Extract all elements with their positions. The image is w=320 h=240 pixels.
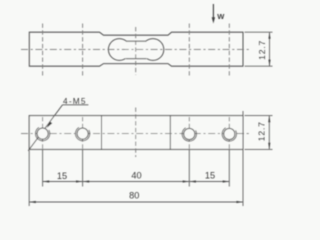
mid vertical centerline (side view)	[135, 27, 137, 75]
load arrow W head	[212, 17, 215, 23]
dumbbell neck mask	[125, 41, 147, 58]
step edge line left (plan)	[101, 116, 103, 150]
hole 2 centerline	[82, 117, 84, 150]
svg-text:12.7: 12.7	[257, 40, 267, 60]
hole 2 (M5 tapped): outer thread arc	[75, 127, 89, 140]
hole 1 (M5 tapped): outer thread arc	[35, 127, 49, 140]
hole 4 projection centerline	[228, 24, 230, 78]
extension line: hole 1	[42, 150, 44, 187]
hole 4 centerline	[228, 117, 230, 150]
plate outline (plan view)	[29, 116, 243, 150]
4-M5 leader line	[28, 105, 62, 151]
hole 1 projection centerline	[42, 24, 44, 78]
chained dimension line 15/40/15	[43, 181, 230, 183]
step edge line right (plan)	[169, 116, 171, 150]
horizontal centerline (side view)	[21, 48, 250, 50]
dumbbell cutout: left circle	[108, 39, 130, 61]
extension line: plate right edge	[242, 111, 244, 206]
hole 2 projection centerline	[82, 24, 84, 78]
svg-text:4-M5: 4-M5	[63, 96, 87, 106]
hole 3 (M5 tapped): outer thread arc	[182, 128, 196, 141]
dumbbell cutout: right circle	[142, 39, 164, 61]
12.7 extension lines (plan view)	[245, 115, 273, 117]
dumbbell neck bottom edge	[126, 58, 147, 60]
svg-text:15: 15	[205, 171, 215, 181]
extension line: hole 4	[228, 150, 230, 187]
svg-text:80: 80	[129, 191, 139, 201]
hole 3 projection centerline	[188, 24, 190, 78]
hole 3 centerline	[188, 117, 190, 150]
load cell body outline (side view, stepped profile)	[29, 32, 243, 66]
hole 1 centerline	[42, 117, 44, 150]
svg-text:15: 15	[57, 171, 67, 181]
extension line: hole 2	[82, 150, 84, 187]
svg-text:12.7: 12.7	[257, 121, 267, 141]
12.7 extension lines (side view)	[245, 31, 273, 33]
mid vertical centerline (plan view)	[135, 108, 137, 158]
hole 2 inner circle	[77, 128, 88, 139]
hole 4 inner circle	[224, 128, 235, 139]
12.7 dimension line (side view)	[269, 32, 271, 66]
extension line: plate left edge	[28, 151, 30, 207]
svg-text:W: W	[217, 12, 225, 21]
load arrow W shaft	[212, 4, 214, 19]
dimension line 80	[29, 201, 243, 203]
hole 4 (M5 tapped): outer thread arc	[222, 128, 236, 141]
extension line: hole 3	[188, 150, 190, 187]
4-M5 leader arrowhead	[47, 121, 53, 128]
12.7 dimension line (plan view)	[268, 116, 270, 150]
hole 1 inner circle	[37, 128, 48, 139]
hole 3 inner circle	[184, 128, 195, 139]
4-M5 underline	[63, 104, 89, 106]
svg-text:40: 40	[131, 170, 141, 180]
dumbbell neck top edge	[126, 40, 147, 42]
horizontal centerline (plan view)	[21, 133, 249, 135]
